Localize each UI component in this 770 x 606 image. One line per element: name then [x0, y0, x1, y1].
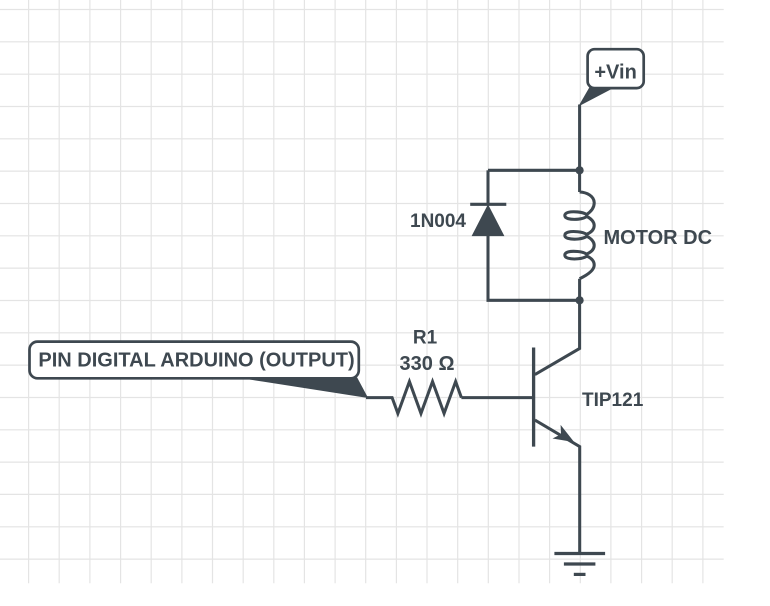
- svg-text:PIN DIGITAL ARDUINO (OUTPUT): PIN DIGITAL ARDUINO (OUTPUT): [38, 350, 354, 372]
- svg-text:330 Ω: 330 Ω: [400, 353, 455, 375]
- wire collector: [535, 300, 580, 374]
- diode D1 1N004: [470, 204, 506, 235]
- resistor R1: [366, 382, 461, 414]
- svg-text:MOTOR DC: MOTOR DC: [604, 227, 713, 249]
- wire top horizontal: [488, 169, 580, 172]
- wire emitter: [535, 420, 580, 553]
- svg-text:+Vin: +Vin: [594, 61, 636, 83]
- emitter arrow: [553, 425, 575, 442]
- svg-text:TIP121: TIP121: [582, 390, 644, 411]
- svg-text:R1: R1: [413, 328, 438, 349]
- callout +Vin: [580, 49, 644, 105]
- wire Vin rail top: [578, 105, 581, 171]
- wire diode branch lower: [488, 235, 580, 300]
- wire diode branch upper: [486, 170, 489, 204]
- wire base: [461, 396, 533, 399]
- svg-text:1N004: 1N004: [410, 211, 466, 232]
- node junction top: [576, 166, 584, 174]
- transistor Q1 TIP121 base bar: [532, 348, 535, 447]
- callout PIN DIGITAL ARDUINO (OUTPUT): [30, 342, 368, 398]
- ground: [554, 554, 605, 575]
- node junction bottom: [576, 296, 584, 304]
- inductor MOTOR DC coil: [578, 170, 581, 192]
